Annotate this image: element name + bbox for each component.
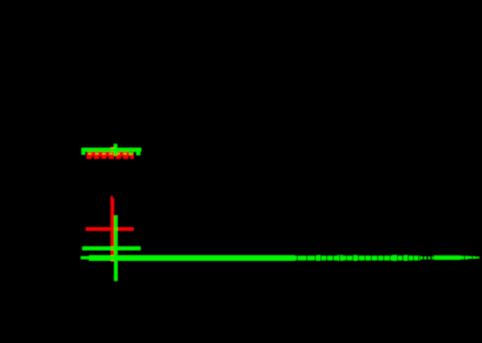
red dashed segment D1 lower dashes xyxy=(87,154,134,159)
red dashed segment D1 center tick xyxy=(111,147,114,153)
green long line L1 right tip xyxy=(475,257,479,258)
red point P3 horizontal error bar xyxy=(86,228,134,231)
green point P2 vertical error bar xyxy=(114,216,117,281)
green long line L1 thick segment c xyxy=(434,256,461,260)
green point P1 left end tick xyxy=(82,152,85,155)
green long line L1 dash gaps xyxy=(297,255,473,260)
green point P2 thin horizontal error bar xyxy=(82,247,140,251)
green long line L1 main solid segment xyxy=(89,256,295,261)
red point P3 vertical error bar top thin xyxy=(111,196,113,199)
green point P1 horizontal error bar xyxy=(82,148,142,152)
red dashed segment D1 upper strip xyxy=(87,152,134,156)
green point P1 center tick xyxy=(114,144,117,155)
green long line L1 dashed segment a xyxy=(295,256,420,260)
green long line L1 segment d xyxy=(461,256,469,259)
green long line L1 thin segment b xyxy=(420,257,433,259)
green point P1 lower dashes xyxy=(88,152,132,155)
green long line L1 segment e xyxy=(468,256,475,258)
green long line L1 left tip xyxy=(81,257,89,260)
red point P3 vertical error bar xyxy=(111,199,114,262)
green point P1 right end tick xyxy=(136,152,140,156)
green long line L1 bumps xyxy=(317,255,409,260)
